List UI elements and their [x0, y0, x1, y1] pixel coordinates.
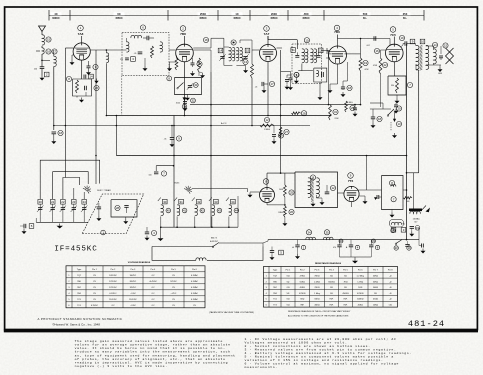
svg-text:220: 220	[120, 59, 123, 61]
svg-text:7B8: 7B8	[180, 32, 186, 36]
svg-text:15: 15	[47, 38, 51, 42]
svg-text:.65X: .65X	[303, 12, 309, 16]
wire	[267, 84, 269, 116]
bus lower	[116, 155, 406, 157]
wire	[41, 46, 43, 48]
osc coil A	[229, 47, 235, 61]
wire	[337, 39, 339, 47]
resistor R23	[391, 78, 399, 93]
wire	[370, 108, 391, 110]
wire	[83, 192, 85, 199]
svg-text:1 Meg: 1 Meg	[314, 293, 320, 295]
svg-text:4X: 4X	[54, 12, 57, 16]
svg-text:253X: 253X	[200, 12, 206, 16]
capacitor C30	[191, 58, 203, 67]
svg-text:22: 22	[61, 200, 65, 204]
series capacitor C16	[366, 36, 379, 53]
capacitor C9b	[164, 125, 182, 142]
svg-text:6.3VAC: 6.3VAC	[191, 292, 198, 295]
tube V5 envelope	[386, 44, 404, 62]
svg-text:31: 31	[334, 110, 338, 114]
svg-text:7KΩ: 7KΩ	[343, 281, 348, 283]
tube V9 callout	[348, 173, 354, 183]
switch S6	[210, 238, 219, 248]
svg-text:7A8: 7A8	[78, 32, 84, 36]
ground	[183, 106, 188, 111]
resistor R22	[373, 58, 388, 74]
svg-text:5KΩ: 5KΩ	[300, 299, 305, 301]
ground	[395, 95, 400, 104]
wire	[224, 47, 233, 65]
svg-text:2.4KΩ: 2.4KΩ	[314, 281, 320, 283]
svg-text:55KΩ: 55KΩ	[314, 299, 320, 301]
bus filament	[268, 239, 419, 241]
svg-text:455KC: 455KC	[115, 17, 123, 20]
ground	[243, 68, 248, 73]
svg-text:33: 33	[214, 200, 218, 204]
svg-text:110VDC: 110VDC	[129, 299, 137, 301]
wire	[210, 72, 212, 227]
svg-text:6.3VAC: 6.3VAC	[191, 298, 198, 301]
boxed 11	[291, 48, 296, 53]
svg-text:45KΩ: 45KΩ	[358, 304, 364, 306]
svg-text:455KC: 455KC	[270, 17, 278, 20]
svg-text:85VDC: 85VDC	[130, 281, 137, 283]
capacitor C1	[34, 67, 49, 77]
capacitor C36	[176, 98, 196, 104]
padder box	[111, 200, 137, 217]
svg-text:11: 11	[312, 176, 315, 180]
ground	[167, 62, 177, 71]
svg-text:1KΩ: 1KΩ	[358, 287, 363, 289]
wire	[359, 155, 382, 190]
wire	[184, 36, 186, 44]
wire plate link	[193, 47, 211, 49]
capacitor C7	[394, 103, 399, 114]
svg-text:7B6: 7B6	[334, 30, 340, 34]
osc coil 4	[209, 198, 222, 229]
tube V2 envelope	[176, 44, 194, 62]
resistor R12 1meg	[260, 117, 274, 131]
resistor R8	[66, 76, 78, 93]
wire	[277, 47, 283, 49]
wire loop middle	[53, 172, 88, 199]
svg-text:115VAC: 115VAC	[413, 217, 421, 220]
svg-text:450KΩ: 450KΩ	[342, 293, 349, 295]
wire	[426, 46, 441, 60]
wire	[337, 35, 339, 39]
wire	[393, 112, 396, 122]
coil L7	[160, 42, 163, 52]
ground	[409, 232, 414, 237]
svg-text:470KΩ: 470KΩ	[299, 293, 306, 295]
wire	[73, 188, 75, 199]
footnote left paragraph	[75, 339, 236, 368]
wire	[219, 243, 263, 247]
svg-text:110VDC: 110VDC	[109, 299, 117, 301]
gang trimmer section 1	[37, 200, 43, 223]
svg-text:52VDC: 52VDC	[170, 281, 177, 283]
svg-text:34: 34	[307, 230, 311, 234]
wire	[53, 134, 55, 139]
svg-text:440: 440	[407, 201, 410, 203]
svg-text:OΩ: OΩ	[389, 304, 393, 306]
ground	[79, 98, 84, 103]
gang trimmer section 5	[81, 200, 87, 223]
resistor R31	[329, 105, 340, 120]
svg-text:20: 20	[395, 246, 399, 250]
svg-text:INF.: INF.	[344, 299, 348, 301]
wire	[152, 246, 213, 248]
wire	[370, 103, 383, 109]
wire	[360, 39, 362, 59]
resistor R19	[359, 58, 369, 71]
tube V3 envelope	[260, 45, 277, 62]
svg-text:31: 31	[179, 200, 183, 204]
svg-text:45KΩ: 45KΩ	[314, 304, 320, 306]
wire	[41, 69, 43, 76]
capacitor C13	[374, 195, 382, 200]
circled 7	[391, 185, 396, 202]
boxed 3	[120, 57, 135, 62]
ground	[341, 81, 346, 97]
interstage transformer box	[295, 172, 338, 208]
wire	[173, 116, 175, 228]
svg-text:6.3VAC: 6.3VAC	[191, 286, 198, 289]
copyright line	[52, 322, 100, 326]
svg-text:RESISTANCE READINGS: RESISTANCE READINGS	[315, 262, 342, 265]
svg-text:32: 32	[191, 99, 195, 103]
svg-text:negative (-) 3 volts to the AV: negative (-) 3 volts to the AVC line.	[75, 364, 168, 368]
capacitor C27	[96, 203, 101, 221]
wire B+ right	[406, 44, 408, 240]
wire to V8 grid	[192, 189, 248, 193]
wire	[106, 63, 108, 116]
svg-text:16: 16	[47, 50, 51, 54]
tube V1 callout	[78, 25, 84, 36]
svg-text:455KC: 455KC	[302, 17, 310, 20]
svg-text:MULT 3: MULT 3	[211, 238, 217, 240]
wire	[122, 49, 127, 51]
capacitor C2	[143, 36, 154, 41]
wire osc feed	[211, 38, 224, 48]
wire plate	[267, 172, 295, 187]
osc coil B	[236, 47, 242, 61]
coil L4	[106, 50, 108, 63]
svg-text:6.3VAC: 6.3VAC	[191, 280, 198, 283]
svg-text:0.3VDC: 0.3VDC	[109, 293, 117, 295]
svg-text:6.3VAC: 6.3VAC	[191, 274, 198, 277]
tube V8 envelope	[260, 188, 275, 203]
svg-text:OΩ: OΩ	[286, 275, 290, 277]
svg-text:--VDC: --VDC	[130, 305, 136, 307]
antenna	[39, 26, 46, 35]
svg-text:MULT. 7 REAR: MULT. 7 REAR	[97, 189, 111, 192]
wire	[380, 74, 382, 107]
ground	[317, 195, 325, 205]
svg-text:3Ω: 3Ω	[344, 275, 347, 277]
osc coil callout	[231, 40, 236, 45]
wire grid	[250, 191, 260, 193]
circled A	[389, 180, 394, 185]
svg-text:455KC: 455KC	[233, 17, 241, 20]
resistor R25	[279, 173, 294, 197]
svg-text:47KΩ: 47KΩ	[300, 275, 306, 277]
wire	[252, 50, 260, 64]
lower loop	[152, 247, 263, 261]
speaker cone	[446, 48, 454, 64]
pilot cap	[410, 226, 420, 232]
bus B+ line	[106, 115, 330, 117]
ground	[94, 79, 98, 84]
capacitor C44	[270, 247, 284, 261]
svg-text:OΩ: OΩ	[286, 304, 290, 306]
svg-text:13: 13	[244, 60, 248, 64]
svg-text:PL: PL	[403, 224, 405, 226]
ground	[51, 139, 56, 144]
svg-text:600KC: 600KC	[52, 17, 60, 20]
table caption 2	[288, 310, 351, 317]
svg-text:24: 24	[83, 200, 87, 204]
svg-text:29: 29	[279, 134, 283, 138]
band switch S3 front	[83, 186, 111, 194]
wire grid	[381, 50, 387, 58]
ground	[248, 193, 253, 198]
capacitor C18b	[371, 109, 382, 123]
coil L6	[127, 38, 130, 52]
svg-text:481-24: 481-24	[408, 319, 445, 329]
gang linkage dashed	[121, 76, 123, 116]
svg-text:22: 22	[383, 63, 387, 67]
svg-text:10: 10	[421, 40, 425, 44]
IF1 secondary	[311, 49, 317, 63]
svg-text:17: 17	[270, 82, 274, 86]
tube V2 callout	[180, 26, 186, 36]
wire	[413, 173, 415, 209]
IF transformer T1 box	[292, 38, 322, 84]
ground	[371, 123, 376, 128]
svg-text:250: 250	[34, 68, 37, 70]
osc coil 1	[158, 198, 171, 229]
wire plate	[90, 49, 122, 51]
ground	[288, 85, 293, 90]
capacitor C left	[20, 224, 34, 229]
svg-text:INF.: INF.	[344, 304, 348, 306]
svg-text:5Ω: 5Ω	[287, 293, 290, 295]
tuning condenser dashed outline	[82, 194, 143, 235]
capacitor C29	[272, 126, 284, 145]
svg-text:41: 41	[183, 209, 187, 213]
svg-text:3Ω: 3Ω	[330, 293, 333, 295]
capacitor A1	[292, 240, 305, 259]
band switch S4 rear	[174, 183, 192, 194]
choke L11	[323, 230, 333, 240]
gang bottom bus	[36, 218, 88, 222]
speaker field coil	[432, 42, 437, 63]
wire grid return	[65, 50, 67, 178]
svg-text:1 MEG: 1 MEG	[264, 129, 270, 131]
svg-text:12: 12	[265, 118, 269, 122]
wire	[407, 172, 419, 174]
wire	[345, 53, 361, 55]
svg-text:INF.: INF.	[300, 304, 304, 306]
svg-text:650KΩ: 650KΩ	[328, 281, 335, 283]
capacitor C28	[115, 205, 129, 213]
antenna coil L1	[42, 35, 51, 45]
svg-text:7C5: 7C5	[390, 33, 396, 37]
ground	[123, 217, 128, 224]
IF frequency label	[54, 246, 97, 254]
ground	[185, 95, 190, 101]
oscillator grid box	[73, 79, 92, 96]
ground	[40, 76, 45, 81]
resistance readings label	[315, 262, 342, 265]
gang trimmer section 2	[50, 200, 56, 223]
svg-text:1.2 Meg: 1.2 Meg	[357, 275, 364, 277]
svg-text:470KΩ: 470KΩ	[357, 293, 364, 295]
svg-text:18: 18	[59, 131, 63, 135]
svg-text:OΩ: OΩ	[286, 287, 290, 289]
photofact line	[38, 317, 123, 321]
svg-text:5Ω: 5Ω	[287, 281, 290, 283]
svg-text:28: 28	[302, 111, 306, 115]
svg-text:60~: 60~	[403, 17, 408, 20]
circled 36	[391, 228, 395, 232]
stage gain ruler	[49, 10, 424, 21]
svg-text:6X: 6X	[117, 12, 120, 16]
wire loop outer	[40, 160, 99, 199]
wire	[95, 50, 97, 184]
svg-text:15: 15	[246, 49, 250, 53]
osc coil 3	[192, 198, 205, 229]
svg-text:70KΩ: 70KΩ	[314, 275, 320, 277]
svg-text:45KΩ: 45KΩ	[300, 287, 306, 289]
capacitor C18	[341, 85, 352, 90]
wire plate bus	[338, 38, 391, 40]
capacitor C12	[325, 185, 336, 194]
wire	[263, 240, 268, 243]
svg-text:36: 36	[391, 229, 395, 233]
svg-text:GRN: GRN	[438, 73, 443, 75]
ground	[285, 85, 290, 90]
wire loop inner	[63, 178, 80, 200]
capacitor C6	[353, 104, 358, 117]
coil L2 primary tap	[36, 48, 57, 54]
pilot lamp circuit	[390, 220, 406, 233]
wire	[360, 71, 362, 105]
resistor R26	[404, 197, 413, 203]
wire	[415, 44, 418, 47]
ground	[22, 228, 27, 234]
svg-text:©Howard W. Sams & Co., Inc. 19: ©Howard W. Sams & Co., Inc. 1948	[52, 322, 100, 326]
tube V8 callout	[263, 179, 269, 185]
svg-text:1 MEG: 1 MEG	[347, 102, 353, 104]
svg-text:12: 12	[331, 186, 335, 190]
svg-text:26: 26	[290, 210, 294, 214]
coil bank bus	[161, 226, 239, 228]
ground	[170, 142, 175, 147]
resistor R18	[198, 37, 209, 72]
wire	[403, 189, 407, 191]
wire AVC to IF grid	[328, 54, 330, 105]
wire	[264, 62, 268, 85]
svg-text:500KΩ: 500KΩ	[357, 299, 364, 301]
boxed 14	[218, 48, 226, 61]
capacitor C19	[399, 35, 406, 45]
voltage readings label	[128, 261, 151, 264]
wire	[418, 228, 420, 240]
capacitor C40	[333, 239, 343, 257]
svg-text:3Ω: 3Ω	[344, 287, 347, 289]
ground	[311, 202, 316, 207]
svg-text:34: 34	[231, 200, 235, 204]
ground	[57, 224, 63, 229]
svg-text:3Ω: 3Ω	[374, 293, 377, 295]
wire	[267, 202, 286, 205]
junction	[53, 125, 55, 127]
wire	[251, 78, 253, 126]
resistance readings table	[264, 267, 398, 308]
wire	[193, 50, 211, 72]
IF1 primary	[302, 49, 308, 63]
svg-text:IF=455KC: IF=455KC	[54, 246, 97, 254]
svg-text:28: 28	[116, 206, 120, 210]
gang trimmer section 3	[60, 200, 66, 223]
capacitor C35	[187, 83, 198, 90]
grid cap wire	[169, 49, 176, 51]
IF1 trimmer unit	[314, 68, 327, 95]
wire	[393, 62, 395, 76]
svg-text:14: 14	[219, 49, 223, 53]
resistor R13	[243, 59, 254, 78]
ground	[282, 217, 287, 226]
svg-text:X100: X100	[176, 103, 180, 105]
tube V5 callout	[390, 27, 396, 38]
svg-text:OΩ: OΩ	[286, 299, 290, 301]
resistor R28	[292, 111, 307, 116]
resistor R2	[151, 46, 154, 58]
svg-text:16: 16	[375, 49, 379, 53]
switch S2	[387, 106, 401, 116]
wire	[41, 54, 50, 67]
bus AVC	[54, 122, 310, 126]
folder number 481-24	[408, 319, 445, 329]
capacitor C_D	[145, 227, 157, 241]
svg-text:55KΩ: 55KΩ	[300, 281, 306, 283]
svg-text:INF.: INF.	[330, 299, 334, 301]
ground	[190, 65, 195, 76]
coil L5	[131, 35, 142, 38]
ground	[143, 58, 148, 71]
svg-text:14: 14	[89, 75, 93, 79]
table caption 1	[209, 311, 254, 314]
svg-text:100: 100	[244, 71, 247, 73]
svg-text:3Ω: 3Ω	[330, 287, 333, 289]
svg-text:1.5KΩ: 1.5KΩ	[357, 281, 363, 283]
svg-text:20: 20	[39, 200, 43, 204]
svg-text:170VDC: 170VDC	[109, 287, 117, 289]
speaker voice cap	[439, 43, 448, 58]
coil L3 secondary	[54, 50, 57, 66]
capacitor C26	[85, 85, 100, 90]
svg-text:50KΩ: 50KΩ	[373, 287, 379, 289]
svg-text:21: 21	[51, 200, 55, 204]
svg-text:measurements.: measurements.	[245, 365, 279, 369]
svg-text:330: 330	[391, 85, 394, 87]
svg-text:25X: 25X	[403, 12, 408, 16]
ground	[328, 64, 338, 93]
interstage transformer T3	[308, 178, 319, 202]
